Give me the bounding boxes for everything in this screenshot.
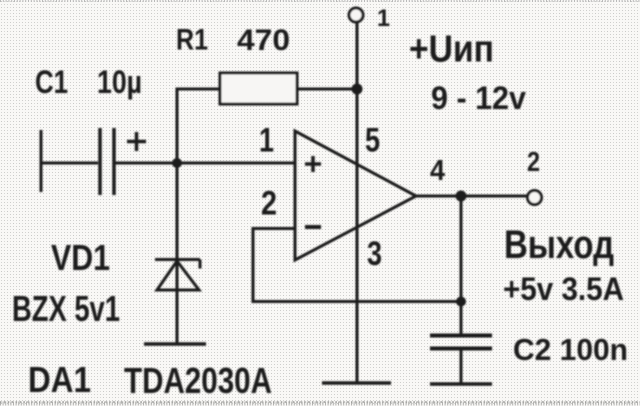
svg-text:C2 100n: C2 100n [513,332,628,367]
svg-text:1: 1 [259,122,274,160]
svg-text:2: 2 [527,146,540,177]
svg-text:3: 3 [367,235,382,273]
svg-text:C1: C1 [35,64,68,100]
svg-text:DA1: DA1 [28,359,91,400]
svg-text:+Uип: +Uип [409,29,494,71]
svg-text:Выход: Выход [504,223,614,267]
svg-text:TDA2030A: TDA2030A [124,360,272,401]
svg-text:2: 2 [261,185,277,223]
svg-text:9 - 12v: 9 - 12v [431,80,526,116]
svg-text:470: 470 [237,24,290,57]
svg-text:1: 1 [377,5,390,32]
svg-text:5: 5 [365,122,380,160]
svg-text:4: 4 [430,155,445,187]
svg-text:VD1: VD1 [51,237,110,278]
svg-text:10µ: 10µ [97,64,142,100]
svg-text:BZX 5v1: BZX 5v1 [12,288,120,329]
svg-text:R1: R1 [176,24,208,57]
svg-text:+5v 3.5A: +5v 3.5A [503,271,624,307]
